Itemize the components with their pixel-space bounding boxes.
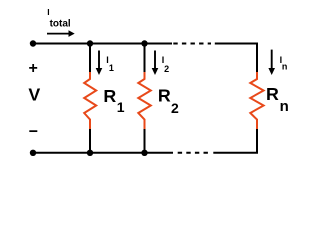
svg-text:2: 2 bbox=[164, 64, 169, 74]
svg-text:R: R bbox=[266, 84, 279, 104]
svg-text:n: n bbox=[282, 61, 288, 71]
svg-text:1: 1 bbox=[109, 63, 114, 73]
svg-text:2: 2 bbox=[171, 100, 179, 116]
svg-text:total: total bbox=[50, 19, 71, 30]
svg-text:n: n bbox=[280, 98, 289, 115]
svg-text:R: R bbox=[158, 85, 171, 105]
svg-text:1: 1 bbox=[117, 99, 125, 115]
svg-text:−: − bbox=[29, 123, 38, 140]
svg-text:I: I bbox=[47, 7, 49, 17]
svg-text:R: R bbox=[103, 86, 116, 106]
svg-text:+: + bbox=[29, 60, 38, 77]
svg-text:V: V bbox=[28, 85, 40, 105]
